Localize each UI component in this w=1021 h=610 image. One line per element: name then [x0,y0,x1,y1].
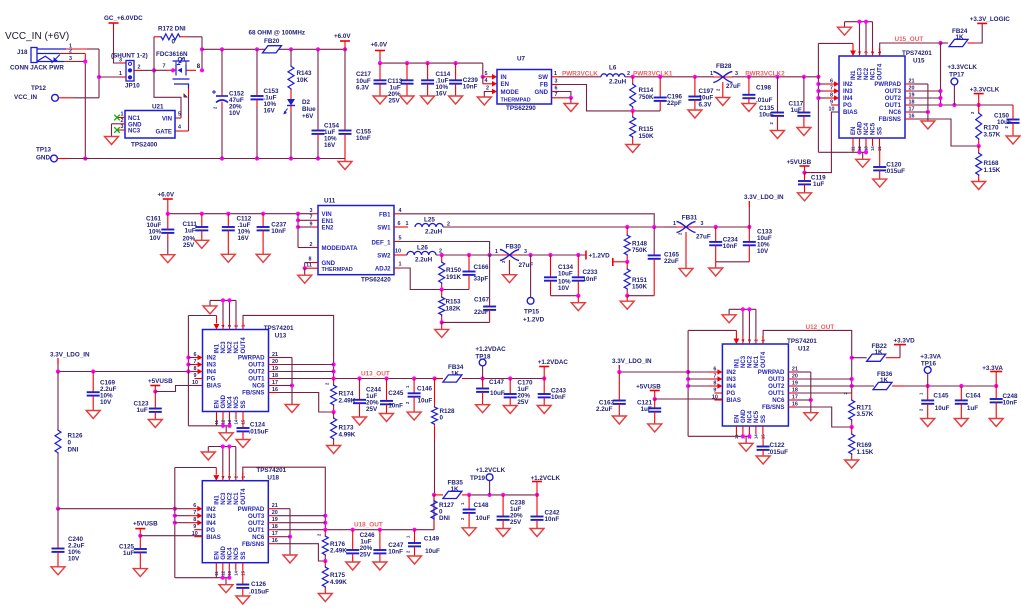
svg-text:3: 3 [555,79,558,85]
ground symbol R151 [620,301,634,309]
capacitor C170 1uF [504,379,533,407]
svg-text:PG: PG [843,102,852,109]
ground symbol C122 [756,456,770,464]
svg-text:1: 1 [119,71,122,77]
J18 pin 3 [64,54,85,63]
svg-text:R169: R169 [857,442,873,449]
wire U15 input wrap [816,43,855,152]
svg-text:IN4: IN4 [207,369,217,376]
capacitor C233 10nF [572,255,598,296]
svg-text:TP17: TP17 [949,72,965,79]
ferrite bead FB20 symbol [263,46,282,53]
ground symbol C150 [1006,136,1020,144]
wire R151 bottom [625,294,654,302]
power flag +3.3VD [894,338,916,358]
svg-text:10K: 10K [297,77,309,84]
inductor L6 2.2uH [601,65,630,86]
ground symbol R115 [626,145,640,153]
svg-text:C166: C166 [474,264,490,271]
svg-text:2: 2 [627,71,630,77]
ground symbol FB31 [679,268,693,276]
svg-text:3.3V_LDO_IN: 3.3V_LDO_IN [612,358,652,365]
svg-text:10uF: 10uF [476,515,491,522]
svg-text:VIN: VIN [162,116,172,123]
wire SW1 rail to FB31 [443,225,665,229]
svg-text:TPS74201: TPS74201 [902,50,932,57]
capacitor C197 10uF 6.3V [688,77,714,110]
resistor R175 4.99K [322,561,347,594]
ground symbol C247 [373,562,387,570]
wire bottom EN/GND wrap [818,146,868,159]
svg-text:68 OHM @ 100MHz: 68 OHM @ 100MHz [249,30,306,37]
svg-text:191K: 191K [446,274,462,281]
svg-text:5: 5 [399,236,402,242]
svg-text:7: 7 [310,215,313,221]
capacitor C121 1uF [637,399,661,424]
svg-text:3.3V_LDO_IN: 3.3V_LDO_IN [50,352,90,359]
svg-text:L26: L26 [417,245,428,252]
ferrite bead FB31 27uF [665,215,711,269]
wire U7 MODE pin [484,85,497,97]
ground symbol C161 [161,255,175,263]
svg-text:IN3: IN3 [206,513,216,520]
svg-text:FB31: FB31 [682,215,698,222]
capacitor C237 10nF [257,214,287,255]
svg-text:IN2: IN2 [207,355,217,362]
svg-text:10nF: 10nF [723,243,738,250]
J18 pin 1 [66,44,87,50]
ground symbol C126 [236,596,250,604]
ground symbol R175 [318,594,332,602]
ground symbol FB28 [716,98,730,106]
ground symbol C149 [408,556,422,564]
svg-text:10V: 10V [100,399,112,406]
svg-text:OUT3: OUT3 [248,362,265,369]
svg-text:C146: C146 [417,386,433,393]
svg-text:16V: 16V [238,235,250,242]
wire U18 OUT4 wrap to out bus [243,467,328,530]
capacitor C135 10uF [759,77,784,131]
test point TP16 +3.3VA [920,353,941,386]
ground symbol C239 [449,96,463,104]
svg-text:BIAS: BIAS [207,383,222,390]
svg-text:6.3V: 6.3V [356,85,370,92]
svg-text:U15_OUT: U15_OUT [895,36,924,43]
resistor R151 150K [624,262,647,296]
svg-text:2.2uH: 2.2uH [425,229,443,236]
svg-text:+6.0V: +6.0V [158,192,175,199]
resistor R173 4.99K [331,412,356,446]
svg-text:R143: R143 [297,70,313,77]
wire U13_OUT rail [277,371,437,381]
svg-text:GND: GND [36,155,50,162]
op-amp U12 TPS74201 [708,336,817,439]
svg-text:FB/SNS: FB/SNS [242,541,264,548]
wire GC to JP10 pin3 [114,30,127,63]
svg-text:0: 0 [440,415,444,422]
wire PWRPAD NC6 to ground [796,372,813,413]
svg-text:NC1: NC1 [233,341,240,354]
ground symbol C114 [421,96,435,104]
wire U12 OUT2 row to FB36 [796,385,874,387]
capacitor C112 .1uF [222,214,252,255]
svg-text:IN2: IN2 [843,81,853,88]
test point TP12 VCC_IN [14,85,99,101]
power flag +5VUSB U18 [133,521,158,538]
wire PWRPAD NC6 to ground [276,509,292,555]
ground symbol U21 [105,137,119,145]
ground symbol NC pins [203,306,217,314]
svg-text:U11: U11 [324,198,336,205]
net label PWR3VCLK1 [633,70,673,77]
svg-text:GND: GND [534,89,548,96]
svg-text:FB/SNS: FB/SNS [762,404,784,411]
resistor R148 750K [624,227,647,262]
svg-text:+1.2VD: +1.2VD [589,253,611,260]
svg-text:+3.3VCLK: +3.3VCLK [947,64,977,71]
svg-text:+5VUSB: +5VUSB [636,383,661,390]
svg-text:16V: 16V [324,142,336,149]
svg-text:U18: U18 [267,475,279,482]
svg-text:+1.2VDAC: +1.2VDAC [475,346,506,353]
svg-text:IN4: IN4 [726,383,736,390]
svg-text:IN3: IN3 [207,362,217,369]
svg-text:C148: C148 [474,502,490,509]
ground symbol PWRPAD [285,405,299,413]
capacitor C119 1uF [798,173,826,193]
svg-text:TPS74201: TPS74201 [264,325,294,332]
svg-text:NC5: NC5 [870,122,877,135]
capacitor C240 2.2uF [52,509,85,567]
ground symbol C243 [537,406,551,414]
wire U11 EN1 EN2 MODE feed [296,214,318,248]
svg-text:R168: R168 [984,160,1000,167]
ground symbol C123 [148,420,162,428]
svg-text:25V: 25V [183,242,195,249]
ground symbol C111 [195,240,209,248]
svg-text:9: 9 [310,221,313,227]
svg-text:1uF: 1uF [137,407,148,414]
capacitor C169 2.2uF [87,372,117,411]
ground symbol C170 [503,406,517,414]
wire FB28 out PWR3VCLK2 [732,70,821,79]
svg-text:TP12: TP12 [31,85,47,92]
svg-text:C167: C167 [474,297,490,304]
svg-text:10nF: 10nF [1003,399,1018,406]
svg-text:THERMPAD: THERMPAD [501,97,531,103]
svg-text:IN3: IN3 [843,88,853,95]
svg-text:4: 4 [485,78,488,84]
wire U7 FB feedback [552,79,661,114]
ground symbol C124 [236,440,250,448]
svg-text:14: 14 [753,434,758,439]
resistor R170 3.57K [970,105,1001,146]
svg-text:3.57K: 3.57K [857,411,874,418]
svg-text:FB/SNS: FB/SNS [242,390,264,397]
ferrite bead FB24 1K [941,28,976,47]
svg-text:CONN JACK PWR: CONN JACK PWR [10,65,64,72]
capacitor C217 10uF 6.3V [356,63,387,96]
test point TP13 GND [36,147,68,162]
svg-text:R126: R126 [68,433,84,440]
wire U12 input wrap [686,330,739,436]
capacitor C149 10uF [406,530,440,556]
svg-text:150K: 150K [632,284,648,291]
capacitor C248 10nF [990,386,1018,419]
capacitor C153 .1uF [251,49,280,158]
svg-text:DNI: DNI [439,515,450,522]
svg-text:EN2: EN2 [322,225,334,232]
svg-text:3: 3 [735,71,738,77]
svg-text:10nF: 10nF [551,394,566,401]
svg-text:R115: R115 [639,126,654,133]
svg-text:.015uF: .015uF [249,429,269,436]
title VCC_IN (+6V) [5,31,69,42]
svg-text:1.15K: 1.15K [984,167,1001,174]
ground symbol C238 [496,529,510,537]
wire U15 OUT4 to U15_OUT rail [880,36,943,56]
capacitor C134 10uF [544,255,574,296]
ground symbol U7 GND [564,104,578,112]
svg-text:25V: 25V [389,98,401,105]
svg-text:10nF: 10nF [545,516,560,523]
ground symbol PWRPAD [804,413,818,421]
svg-text:14: 14 [234,419,239,424]
capacitor C148 10uF [460,495,490,528]
wire U7 EN pin [483,77,497,87]
svg-text:MODE: MODE [501,89,519,96]
svg-text:1: 1 [554,71,557,77]
wire SW2 node [436,253,501,257]
svg-text:2.49K: 2.49K [330,548,347,555]
svg-text:DNI: DNI [68,447,79,454]
ground symbol C237 [256,254,270,262]
resistor R172 DNI 0 [154,26,187,46]
svg-text:U12: U12 [798,346,810,353]
svg-text:C164: C164 [966,393,982,400]
ground symbol C242 [530,529,544,537]
svg-text:1uF: 1uF [791,107,802,114]
capacitor C163 2.2uF [596,372,626,416]
ferrite bead FB35 1K [434,480,469,499]
capacitor C126 .015uF [236,571,269,596]
power flag +1.2VDAC [538,359,569,379]
wire left bus to GND row [83,59,87,160]
svg-text:+3.3VA: +3.3VA [920,353,941,360]
svg-text:+5VUSB: +5VUSB [133,521,158,528]
svg-text:4.99K: 4.99K [330,579,347,586]
op-amp U21 TPS2400 [118,104,181,149]
svg-text:16V: 16V [264,108,276,115]
ground symbol IC bottom [219,433,233,441]
power flag +1.2VD right [585,251,587,260]
svg-text:IN2: IN2 [726,369,736,376]
svg-text:C245: C245 [388,390,404,397]
capacitor C120 .015uF [873,146,905,179]
ground symbol C125 [133,569,147,577]
svg-text:14: 14 [870,146,875,151]
svg-text:GND: GND [322,260,336,267]
ground symbol U11 [298,275,312,283]
capacitor C155 10nF [339,49,372,158]
svg-text:25V: 25V [517,399,529,406]
ground symbol PWRPAD [283,555,297,563]
svg-text:7: 7 [163,64,166,70]
svg-text:L25: L25 [424,217,435,224]
svg-text:+6.0V: +6.0V [371,42,388,49]
svg-text:1uF: 1uF [641,406,652,413]
ground symbol C248 [989,419,1003,427]
svg-text:(SHUNT 1-2): (SHUNT 1-2) [111,53,148,60]
ground symbol R153 [435,329,449,337]
resistor R150 191K [439,255,462,290]
wire U12 FB/SNS to divider [796,407,853,429]
wire R126 3.3V_LDO_IN bus [56,372,60,511]
svg-text:U15: U15 [913,58,925,65]
svg-text:THERMPAD: THERMPAD [322,267,353,273]
J18 pin 2 [59,49,85,55]
svg-text:2: 2 [121,118,124,124]
svg-text:10nF: 10nF [388,403,403,410]
svg-text:10nF: 10nF [388,549,403,556]
svg-text:1uF: 1uF [967,405,978,412]
ferrite bead FB28 27uF [710,63,741,98]
capacitor C196 22pF [654,77,683,111]
ground symbol C146 [407,412,421,420]
svg-text:R175: R175 [330,572,346,579]
wire U15 OUT1 +3.3VCLK rail [913,103,1013,107]
svg-text:FB20: FB20 [264,38,280,45]
capacitor C198 .01uF [742,77,772,104]
resistor R128 0 [432,379,456,495]
svg-text:4.99K: 4.99K [339,432,356,439]
test point TP19 +1.2VCLK [470,467,506,495]
svg-text:10V: 10V [757,248,769,255]
svg-text:R172 DNI: R172 DNI [158,26,186,33]
wire NC pins to top ground [210,298,236,321]
capacitor C122 .015uF [757,434,789,456]
svg-text:10uF: 10uF [997,119,1012,126]
svg-text:PG: PG [206,527,215,534]
wire U11 SW1 out [394,226,408,228]
capacitor C246 1uF [346,530,375,562]
ground symbol R169 [845,460,859,468]
wire NC pins to top ground [845,20,873,48]
resistor R127 0 DNI [431,495,455,530]
svg-text:BIAS: BIAS [726,397,741,404]
wire U21 GND pin to ground [112,124,119,137]
wire FB30 out +1.2VD rail [519,253,587,257]
power flag GC_+6.0VDC [104,15,143,30]
svg-text:+6.0V: +6.0V [334,33,351,40]
wire J18 pin1 to node [87,49,101,98]
svg-text:NC6: NC6 [889,109,902,116]
wire U11 ADJ2 to divider [394,268,469,292]
svg-text:NC1: NC1 [870,67,877,80]
svg-text:1: 1 [399,262,402,268]
ground symbol C119 [798,193,812,201]
resistor R174 2.49K [325,379,356,413]
svg-text:J18: J18 [17,49,28,56]
svg-text:OUT1: OUT1 [768,390,785,397]
svg-text:JP10: JP10 [125,83,140,90]
wire +5VUSB to U18 BIAS [140,535,202,537]
svg-text:TP13: TP13 [36,147,52,154]
wire C134 C233 ground link [551,294,581,303]
svg-text:+5VUSB: +5VUSB [148,378,173,385]
svg-text:TP15: TP15 [524,309,540,316]
capacitor C238 1uF [497,495,526,529]
svg-text:OUT3: OUT3 [768,376,785,383]
resistor R171 3.57K [843,392,874,428]
power flag +1.2VD left [589,253,630,267]
capacitor C244 1uF [353,379,382,418]
resistor R176 2.49K [317,530,348,561]
capacitor C166 33pF [463,255,490,290]
svg-text:TPS74201: TPS74201 [787,338,817,345]
svg-text:1uF: 1uF [123,550,134,557]
svg-text:4: 4 [399,208,402,214]
svg-text:1: 1 [673,221,676,227]
ferrite bead FB22 1K [852,343,900,361]
svg-text:C145: C145 [933,393,949,400]
capacitor C150 10uF [994,105,1020,136]
svg-text:25V: 25V [510,519,522,526]
ground symbol IC bottom [856,159,870,167]
svg-text:.015uF: .015uF [885,168,905,175]
svg-text:2.2uH: 2.2uH [609,78,627,85]
svg-text:IN3: IN3 [726,376,736,383]
svg-text:.01uF: .01uF [756,97,773,104]
svg-text:TPS74201: TPS74201 [256,467,286,474]
svg-text:OUT4: OUT4 [877,63,884,80]
capacitor C161 10uF [146,214,174,255]
svg-text:C198: C198 [756,85,772,92]
wire U11 FB1 wrap [394,214,654,227]
op-amp U15 TPS74201 [825,48,932,151]
ferrite bead FB20 68 OHM @ 100MHz [249,30,306,46]
ground symbol C217 [373,96,387,104]
wire U15 OUT3 OUT2 to out bus [913,43,943,105]
svg-text:IN: IN [501,74,507,81]
svg-text:TP19: TP19 [470,475,486,482]
svg-text:IN4: IN4 [206,520,216,527]
svg-text:PG: PG [207,376,216,383]
resistor R153 182K [439,290,461,323]
svg-text:+6V: +6V [302,113,314,120]
capacitor C123 1uF [134,392,162,420]
svg-text:R153: R153 [446,299,462,306]
capacitor C117 1uF [789,77,811,128]
svg-text:750K: 750K [632,247,648,254]
svg-text:7: 7 [555,92,558,98]
capacitor C147 10uF [476,379,505,405]
capacitor C124 .015uF [237,420,269,440]
ground symbol IC bottom [219,585,233,593]
ground symbol C148 [462,528,476,536]
svg-text:3: 3 [121,124,124,130]
svg-text:+1.2VDAC: +1.2VDAC [538,359,569,366]
wire +3.3VA rail [905,384,998,388]
ground symbol C244 [353,417,367,425]
ground symbol NC pins [838,27,852,35]
capacitor C242 10nF [531,495,561,529]
wire U18 input wrap [173,468,219,578]
svg-text:3: 3 [310,208,313,214]
op-amp U18 TPS74201 [188,467,286,576]
svg-text:2: 2 [486,85,489,91]
svg-text:NC5: NC5 [233,396,240,409]
